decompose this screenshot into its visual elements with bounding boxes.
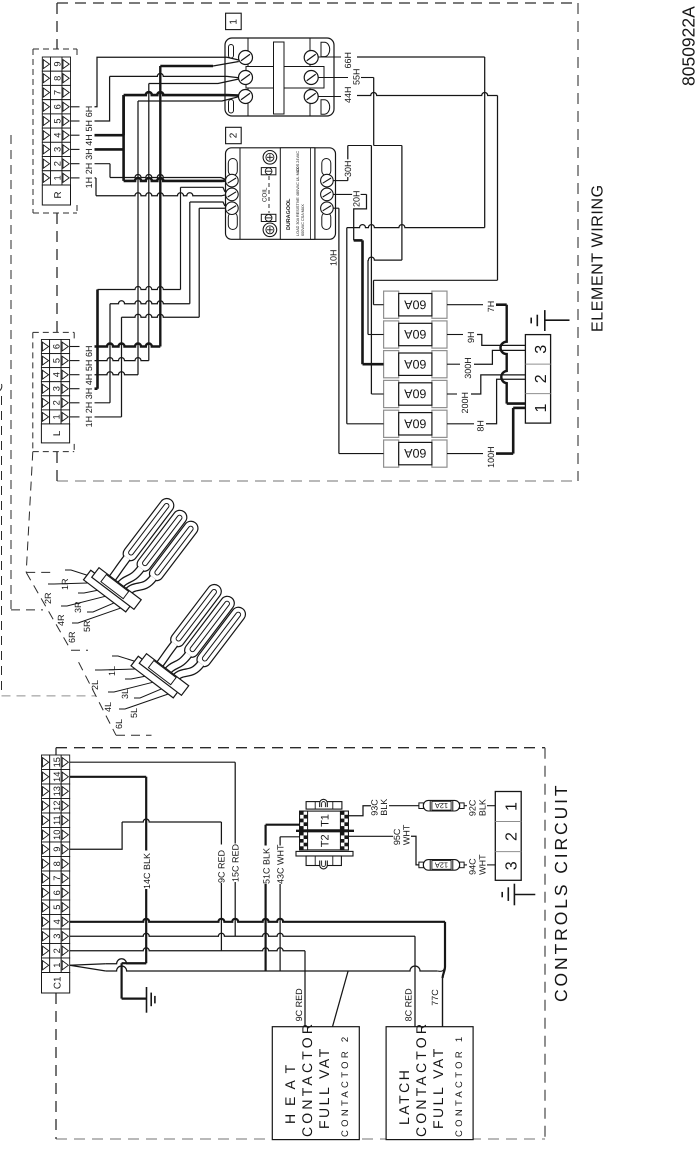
svg-text:1H: 1H — [84, 416, 94, 428]
fuse F1 60A — [384, 291, 447, 318]
svg-text:H E A T: H E A T — [282, 1063, 298, 1124]
wire t1b to HEAT coil diagonal — [333, 971, 349, 1027]
wire 7H fuse F1 to block pin 1 - heavy — [447, 301, 525, 404]
svg-text:3: 3 — [53, 147, 63, 152]
svg-text:43C WHT: 43C WHT — [276, 844, 286, 884]
svg-text:3: 3 — [504, 861, 521, 870]
svg-text:60A: 60A — [404, 327, 427, 341]
element L lead wires 1L-6L — [90, 656, 177, 729]
wire 8C RED from C1-3 to LATCH coil — [70, 933, 415, 1026]
svg-text:5H: 5H — [84, 120, 94, 132]
element R lead wires 1R-6R — [43, 570, 130, 643]
svg-text:CONTACTOR 1: CONTACTOR 1 — [454, 1033, 465, 1137]
svg-text:2: 2 — [504, 832, 521, 841]
svg-text:55H: 55H — [352, 68, 362, 85]
svg-text:7H: 7H — [486, 301, 496, 313]
svg-text:20H: 20H — [352, 190, 362, 207]
svg-text:8C RED: 8C RED — [404, 988, 414, 1022]
svg-text:9C RED: 9C RED — [294, 988, 304, 1022]
wire 93C BLK transformer to fuse FC1 — [348, 799, 419, 816]
wire 3H (L strip) heavy link via staircase to contactor 2 — [70, 187, 225, 399]
svg-text:FULL VAT: FULL VAT — [316, 1046, 332, 1129]
svg-text:9: 9 — [52, 847, 62, 852]
ground symbol (element wiring) — [531, 310, 569, 331]
wire 2H (R strip) to contactor 2 — [71, 163, 225, 180]
wire 6H (L strip) heavy riser to contactor 1 — [70, 62, 239, 358]
wire 20H contactor 2 to fuse F3 - heavy — [333, 189, 383, 364]
terminal strip R sub-enclosure — [33, 49, 77, 213]
wire 94C WHT fuse FC2 to block pin 3 — [464, 854, 495, 875]
contactor 2 (DURAGOOL relay) — [226, 148, 336, 240]
svg-text:BLK: BLK — [379, 799, 389, 816]
svg-text:2H: 2H — [84, 163, 94, 175]
svg-text:30H: 30H — [343, 160, 353, 177]
svg-text:BLK: BLK — [478, 799, 488, 816]
wire 1H (R strip) to contactor 2 — [71, 177, 225, 196]
contactor 1 (3-pole) — [225, 38, 334, 116]
svg-text:8: 8 — [52, 861, 62, 866]
wire 51C BLK transformer primary - heavy — [261, 825, 299, 971]
svg-text:4L: 4L — [103, 702, 113, 712]
svg-text:T2: T2 — [320, 834, 332, 847]
control fuse FC2 12A — [419, 860, 464, 871]
svg-text:5: 5 — [52, 905, 62, 910]
wire 4H (R strip) to contactor 1 - heavy — [71, 92, 239, 146]
svg-text:R: R — [53, 191, 64, 198]
svg-text:3: 3 — [533, 345, 550, 354]
svg-text:L: L — [52, 430, 63, 436]
svg-text:1: 1 — [533, 403, 550, 412]
wire 4H (L strip) riser to contactor 1 — [70, 97, 239, 386]
svg-text:66H: 66H — [343, 52, 353, 69]
wire 92C BLK fuse FC1 to block pin 1 — [464, 799, 495, 816]
coil of contactor 2 — [268, 176, 270, 213]
svg-text:10: 10 — [52, 830, 62, 840]
wire from C1-1 (fan b) to 77C junction — [70, 965, 445, 971]
svg-text:4R: 4R — [56, 614, 66, 626]
control fuse FC1 12A — [419, 800, 464, 811]
wire 30H contactor 2 to fuse F4 — [333, 146, 383, 395]
wire 9C from C1-9 — [70, 819, 227, 951]
svg-text:94C: 94C — [468, 858, 478, 875]
terminal strip L — [41, 340, 69, 443]
svg-text:9: 9 — [53, 62, 63, 67]
HEAT CONTACTOR FULL VAT coil (contactor 2) — [272, 1021, 359, 1140]
svg-text:4H: 4H — [84, 134, 94, 146]
svg-text:LATCH: LATCH — [396, 1068, 412, 1125]
svg-text:14C BLK: 14C BLK — [142, 853, 152, 889]
svg-text:2L: 2L — [90, 680, 100, 690]
svg-text:3H: 3H — [84, 388, 94, 400]
wire 10H contactor 2 to fuse F6 — [329, 208, 384, 453]
svg-text:6L: 6L — [114, 719, 124, 729]
svg-text:2: 2 — [52, 948, 62, 953]
svg-text:1: 1 — [504, 802, 521, 811]
fuse F3 60A — [384, 351, 447, 378]
svg-text:12A: 12A — [435, 801, 448, 810]
svg-text:5: 5 — [53, 118, 63, 123]
svg-text:95C: 95C — [392, 828, 402, 845]
svg-text:2H: 2H — [84, 402, 94, 414]
svg-text:60A: 60A — [404, 446, 427, 460]
svg-text:60A: 60A — [404, 416, 427, 430]
svg-text:92C: 92C — [468, 799, 478, 816]
wire 3H (R strip) heavy jumper to contactor 2 — [71, 95, 225, 181]
svg-text:FULL VAT: FULL VAT — [430, 1046, 446, 1129]
svg-text:2: 2 — [53, 161, 63, 166]
wire 200H fuse F4 to block pin 2 — [447, 375, 525, 414]
controls circuit enclosure dashed border — [56, 748, 545, 1139]
svg-text:15C RED: 15C RED — [230, 843, 240, 882]
svg-text:6: 6 — [52, 344, 62, 349]
wire from C1-1 (fan a) — [70, 959, 147, 965]
svg-text:5: 5 — [52, 358, 62, 363]
wire 66H contactor 1 to fuse F5 — [318, 52, 485, 424]
svg-text:CONTACTOR: CONTACTOR — [413, 1021, 429, 1137]
svg-text:2: 2 — [533, 374, 550, 383]
wire bus from C1-4 to LATCH coil (77C) - heavy — [70, 919, 445, 1027]
wire 2H (L strip) riser via staircase to contactor 2 — [70, 202, 225, 413]
fuse F6 60A — [384, 440, 447, 467]
svg-text:3: 3 — [52, 386, 62, 391]
svg-text:51C BLK: 51C BLK — [261, 848, 271, 884]
svg-text:1: 1 — [229, 19, 240, 25]
svg-text:60A: 60A — [404, 297, 427, 311]
svg-text:10H: 10H — [329, 249, 339, 266]
svg-text:600VAC CSA MAX: 600VAC CSA MAX — [301, 204, 305, 236]
transformer T1/T2 — [296, 799, 354, 869]
svg-text:9C RED: 9C RED — [217, 849, 227, 883]
svg-text:T1: T1 — [320, 814, 332, 827]
ground symbol (controls terminal block) — [502, 884, 535, 906]
svg-text:CONTACTOR: CONTACTOR — [299, 1021, 315, 1137]
svg-text:6H: 6H — [84, 345, 94, 357]
svg-text:200H: 200H — [460, 392, 470, 414]
svg-text:5H: 5H — [84, 360, 94, 372]
wire 8H fuse F5 to block pin 2 — [447, 379, 525, 431]
svg-text:4: 4 — [52, 919, 62, 924]
svg-text:5L: 5L — [129, 708, 139, 718]
wire 55H contactor 1 to fuse F2 — [318, 68, 402, 334]
svg-text:ELEMENT WIRING: ELEMENT WIRING — [590, 184, 607, 332]
svg-text:6H: 6H — [84, 106, 94, 118]
svg-text:6: 6 — [53, 104, 63, 109]
wire 1H (L strip) riser via staircase to contactor 2 — [70, 208, 225, 427]
svg-text:2: 2 — [52, 400, 62, 405]
wire 100H fuse F6 to block pin 1 - heavy — [447, 408, 525, 468]
svg-text:C1: C1 — [52, 977, 63, 990]
wire 14C BLK from C1-14 to ground — [70, 777, 153, 999]
svg-text:1: 1 — [52, 963, 62, 968]
heating element R (tubular, isometric) — [84, 487, 203, 617]
wire 300H fuse F3 to block pin 3 — [447, 350, 525, 378]
svg-text:8H: 8H — [475, 420, 485, 432]
svg-text:13: 13 — [52, 786, 62, 796]
svg-text:3H: 3H — [84, 148, 94, 160]
svg-text:300H: 300H — [463, 357, 473, 379]
svg-text:100H: 100H — [486, 446, 496, 468]
svg-text:11: 11 — [52, 815, 62, 825]
svg-text:9H: 9H — [466, 331, 476, 343]
terminal strip C1 — [42, 755, 70, 993]
svg-text:93C: 93C — [370, 799, 380, 816]
svg-text:WHT: WHT — [478, 854, 488, 875]
ground symbol (controls / C1) — [147, 987, 155, 1013]
svg-text:1: 1 — [52, 414, 62, 419]
svg-text:COIL: COIL — [262, 187, 269, 202]
svg-text:2: 2 — [229, 132, 240, 138]
svg-text:14: 14 — [52, 772, 62, 782]
svg-text:12: 12 — [52, 801, 62, 811]
svg-text:60A: 60A — [404, 357, 427, 371]
svg-text:WHT: WHT — [402, 824, 412, 845]
svg-text:7: 7 — [52, 876, 62, 881]
svg-text:77C: 77C — [430, 989, 440, 1006]
svg-text:COS 24VAC: COS 24VAC — [296, 151, 300, 172]
wire 44H contactor 1 to fuse F1 — [318, 86, 497, 304]
wire 6H from R1? (R strip terminal 6) to contactor 1 — [71, 57, 239, 117]
svg-text:6R: 6R — [67, 631, 77, 643]
svg-text:DURAGOOL: DURAGOOL — [286, 198, 292, 230]
svg-text:8: 8 — [53, 76, 63, 81]
svg-text:4: 4 — [52, 372, 62, 377]
terminal strip R — [42, 57, 70, 205]
fuse F5 60A — [384, 410, 447, 437]
wire 95C WHT transformer to fuse FC2 — [348, 824, 419, 865]
svg-text:CONTROLS CIRCUIT: CONTROLS CIRCUIT — [551, 783, 571, 1002]
svg-text:LOAD 30A RESISTIVE 480VAC UL M: LOAD 30A RESISTIVE 480VAC UL MAX — [296, 167, 300, 236]
contactor 2 designator box — [226, 127, 242, 143]
terminal strip L sub-enclosure — [33, 332, 74, 451]
svg-text:15: 15 — [52, 757, 62, 767]
wire 5H (L strip) riser to contactor 1 — [70, 79, 239, 371]
wire 5H (R strip) to contactor 1 — [71, 73, 239, 131]
svg-text:6: 6 — [52, 890, 62, 895]
svg-text:1: 1 — [53, 175, 63, 180]
svg-text:2R: 2R — [43, 592, 53, 604]
svg-text:4: 4 — [53, 133, 63, 138]
svg-text:1H: 1H — [84, 177, 94, 189]
svg-text:4H: 4H — [84, 374, 94, 386]
wire 15C RED from C1-15 — [70, 762, 241, 936]
element terminal block pins 3/2/1 — [525, 335, 550, 424]
element wiring enclosure dashed border — [57, 3, 578, 481]
heating element L (tubular, isometric) — [131, 573, 250, 703]
svg-text:7: 7 — [53, 90, 63, 95]
wire 9C RED from C1-2 to HEAT coil — [70, 948, 305, 1027]
wire 43C WHT transformer — [276, 837, 300, 971]
svg-text:1L: 1L — [107, 666, 117, 676]
contactor 1 designator box — [226, 13, 242, 29]
svg-text:8050922A: 8050922A — [679, 6, 695, 86]
fuse F2 60A — [384, 321, 447, 348]
svg-text:12A: 12A — [435, 860, 448, 869]
fuse F4 60A — [384, 380, 447, 407]
svg-text:44H: 44H — [343, 86, 353, 103]
svg-text:3: 3 — [52, 934, 62, 939]
wire 9H fuse F2 to block pin 3 — [447, 331, 525, 345]
LATCH CONTACTOR FULL VAT coil (contactor 1) — [386, 1021, 473, 1140]
harness boundary dashed lines to heating elements — [0, 135, 152, 735]
fuse bank 60A (F1-F6) — [384, 291, 447, 467]
svg-text:CONTACTOR 2: CONTACTOR 2 — [340, 1033, 351, 1137]
svg-text:60A: 60A — [404, 387, 427, 401]
svg-text:5R: 5R — [82, 620, 92, 632]
controls terminal block pins 1/2/3 — [495, 792, 521, 881]
